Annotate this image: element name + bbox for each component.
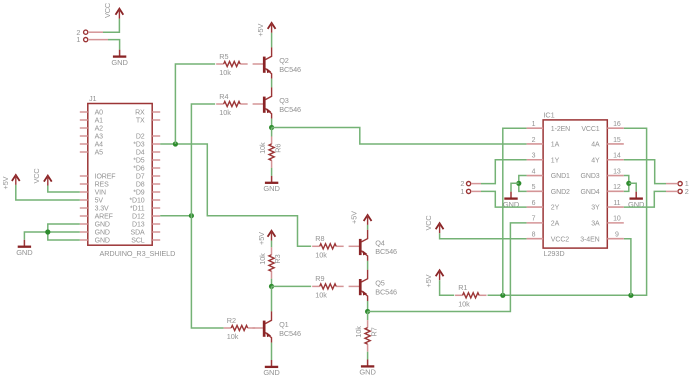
svg-text:D2: D2 [136, 134, 145, 141]
svg-text:5V: 5V [95, 198, 104, 205]
wire [175, 64, 215, 144]
svg-text:R8: R8 [315, 234, 324, 243]
transistor Q2 [253, 47, 301, 78]
svg-text:10k: 10k [227, 332, 239, 341]
wire [367, 225, 369, 230]
IC IC1 L293D [527, 110, 624, 257]
svg-text:VCC2: VCC2 [551, 236, 569, 243]
transistor Q1 [253, 311, 301, 342]
wire [48, 186, 80, 193]
supply +5V (Q4) [349, 211, 371, 225]
svg-text:IOREF: IOREF [95, 174, 116, 181]
svg-text:SCL: SCL [131, 238, 145, 245]
wire [271, 119, 273, 128]
svg-text:3A: 3A [591, 220, 600, 227]
svg-text:+5V: +5V [424, 274, 433, 287]
svg-text:GND: GND [111, 58, 128, 67]
wire [48, 224, 80, 240]
wire D3 [160, 144, 311, 246]
svg-text:BC546: BC546 [279, 65, 301, 74]
svg-text:Q2: Q2 [279, 56, 289, 65]
connector X1 pin 2 [76, 28, 103, 37]
svg-text:R5: R5 [219, 52, 228, 61]
svg-text:GND4: GND4 [581, 189, 600, 196]
ground (below Q1) [263, 360, 280, 377]
wire [271, 286, 273, 311]
resistor R4 [216, 92, 248, 117]
svg-text:TX: TX [136, 118, 145, 125]
svg-text:A2: A2 [95, 126, 104, 133]
svg-text:VCC1: VCC1 [581, 126, 599, 133]
wire [481, 160, 527, 184]
wire 2A [368, 223, 527, 312]
svg-text:1A: 1A [551, 142, 560, 149]
svg-text:VIN: VIN [95, 190, 106, 197]
svg-text:1: 1 [76, 35, 80, 44]
svg-text:3Y: 3Y [591, 205, 600, 212]
svg-text:3.3V: 3.3V [95, 206, 109, 213]
svg-text:R3: R3 [273, 254, 282, 263]
svg-text:2Y: 2Y [551, 205, 560, 212]
svg-text:BC546: BC546 [375, 287, 397, 296]
connector X3 pin 1 [666, 179, 689, 188]
wire [103, 19, 119, 33]
wire [271, 128, 273, 137]
wire [271, 343, 273, 360]
svg-text:D7: D7 [136, 174, 145, 181]
svg-text:4: 4 [532, 168, 536, 175]
svg-text:D12: D12 [132, 214, 145, 221]
svg-text:1-2EN: 1-2EN [551, 126, 570, 133]
svg-text:GND1: GND1 [551, 173, 570, 180]
svg-text:A0: A0 [95, 110, 104, 117]
svg-text:3: 3 [532, 153, 536, 160]
ground (below R7) [359, 360, 376, 377]
svg-text:7: 7 [532, 216, 536, 223]
transistor Q5 [349, 270, 397, 301]
wire [271, 33, 273, 48]
junction [516, 181, 521, 186]
svg-text:VCC: VCC [32, 168, 41, 183]
svg-text:R6: R6 [273, 144, 282, 153]
svg-text:A5: A5 [95, 150, 104, 157]
svg-text:R7: R7 [369, 327, 378, 336]
svg-text:GND: GND [16, 248, 33, 257]
svg-text:11: 11 [613, 200, 620, 207]
wire [624, 160, 666, 184]
supply +5V (R1) [424, 270, 444, 287]
svg-text:VCC: VCC [424, 215, 433, 230]
junction [365, 309, 370, 314]
svg-text:GND: GND [95, 238, 110, 245]
resistor R9 [312, 274, 344, 299]
svg-text:Q3: Q3 [279, 96, 289, 105]
resistor R6 [258, 136, 282, 168]
svg-text:R9: R9 [315, 274, 324, 283]
svg-text:R1: R1 [458, 283, 467, 292]
svg-text:D13: D13 [132, 222, 145, 229]
supply VCC (top-left) [103, 3, 123, 19]
wire [440, 233, 527, 239]
resistor R1 [455, 283, 487, 308]
resistor R7 [354, 320, 378, 352]
svg-text:4Y: 4Y [591, 157, 600, 164]
ground (left of J1) [16, 240, 33, 257]
resistor R3 [258, 247, 282, 279]
wire [191, 104, 223, 328]
wire [481, 191, 527, 207]
wire [503, 128, 527, 295]
svg-text:*D9: *D9 [133, 190, 145, 197]
ground (below R6) [263, 176, 280, 193]
svg-text:10k: 10k [258, 142, 267, 154]
svg-text:3-4EN: 3-4EN [580, 236, 599, 243]
wire 1A [272, 128, 527, 145]
connector X1 pin 1 [76, 35, 108, 44]
svg-text:L293D: L293D [544, 249, 565, 258]
svg-text:BC546: BC546 [279, 105, 301, 114]
svg-text:9: 9 [615, 231, 619, 238]
svg-text:*D5: *D5 [133, 158, 145, 165]
svg-text:1: 1 [460, 187, 464, 196]
svg-text:IC1: IC1 [544, 110, 555, 119]
wire [511, 183, 519, 191]
wire [440, 280, 455, 295]
svg-text:Q5: Q5 [375, 279, 385, 288]
wire [367, 301, 369, 312]
junction [189, 213, 194, 218]
connector X2 pin 1 [460, 187, 481, 196]
svg-text:*D6: *D6 [133, 166, 145, 173]
svg-text:A3: A3 [95, 134, 104, 141]
svg-text:R2: R2 [227, 316, 236, 325]
svg-text:2A: 2A [551, 220, 560, 227]
svg-text:10k: 10k [315, 291, 327, 300]
supply +5V (left) [1, 175, 20, 189]
junction [626, 181, 631, 186]
svg-text:4A: 4A [591, 142, 600, 149]
svg-text:12: 12 [613, 184, 621, 191]
wire [16, 185, 80, 200]
resistor R2 [224, 316, 256, 341]
svg-text:+5V: +5V [349, 211, 358, 224]
wire [108, 40, 120, 50]
svg-text:VCC: VCC [103, 3, 112, 18]
svg-text:10k: 10k [458, 300, 470, 309]
svg-text:D8: D8 [136, 182, 145, 189]
connector X2 pin 2 [460, 179, 481, 188]
junction [500, 293, 505, 298]
svg-text:10k: 10k [258, 253, 267, 265]
svg-text:10k: 10k [354, 326, 363, 338]
svg-text:2: 2 [532, 137, 536, 144]
ground (IC right) [628, 192, 645, 209]
supply +5V (R3) [257, 231, 276, 245]
svg-text:RES: RES [95, 182, 110, 189]
svg-text:GND3: GND3 [581, 173, 600, 180]
svg-text:+5V: +5V [257, 232, 266, 245]
svg-text:1: 1 [532, 121, 536, 128]
svg-text:16: 16 [613, 121, 621, 128]
supply VCC (right) [424, 215, 444, 233]
svg-text:A4: A4 [95, 142, 104, 149]
wire [519, 176, 527, 192]
svg-text:R4: R4 [219, 92, 228, 101]
wire [271, 241, 273, 248]
wire [488, 128, 647, 295]
svg-text:D4: D4 [136, 150, 145, 157]
junction [173, 141, 178, 146]
ground (top-left) [111, 50, 128, 67]
wire [367, 312, 369, 321]
svg-text:8: 8 [532, 231, 536, 238]
svg-text:GND: GND [95, 222, 110, 229]
wire [271, 279, 273, 287]
svg-text:J1: J1 [89, 94, 97, 103]
wire [624, 176, 629, 192]
transistor Q3 [253, 87, 301, 118]
svg-text:GND: GND [95, 230, 110, 237]
svg-text:Q1: Q1 [279, 320, 289, 329]
svg-text:5: 5 [532, 184, 536, 191]
wire [629, 183, 636, 191]
svg-text:1Y: 1Y [551, 157, 560, 164]
wire [367, 261, 369, 270]
junction [269, 125, 274, 130]
transistor Q4 [349, 230, 397, 261]
svg-text:GND2: GND2 [551, 189, 570, 196]
svg-text:*D10: *D10 [129, 198, 144, 205]
ground (IC left) [503, 192, 520, 209]
svg-text:A1: A1 [95, 118, 104, 125]
svg-text:+5V: +5V [1, 176, 10, 189]
resistor R5 [216, 52, 248, 77]
svg-text:GND: GND [359, 368, 376, 377]
svg-text:Q4: Q4 [375, 238, 385, 247]
svg-text:14: 14 [613, 153, 621, 160]
svg-text:10k: 10k [315, 251, 327, 260]
svg-text:10k: 10k [219, 108, 231, 117]
svg-text:ARDUINO_R3_SHIELD: ARDUINO_R3_SHIELD [100, 249, 176, 258]
svg-text:10k: 10k [219, 68, 231, 77]
svg-text:6: 6 [532, 200, 536, 207]
svg-text:GND: GND [263, 368, 280, 377]
svg-text:+5V: +5V [256, 24, 265, 37]
svg-text:GND: GND [263, 184, 280, 193]
wire [24, 232, 79, 240]
supply +5V (Q2) [256, 23, 276, 37]
svg-text:*D3: *D3 [133, 142, 145, 149]
junction [45, 229, 50, 234]
svg-text:2: 2 [685, 187, 689, 196]
svg-text:RX: RX [135, 110, 145, 117]
supply VCC (left) [32, 168, 52, 185]
svg-text:15: 15 [613, 137, 621, 144]
resistor R8 [312, 234, 344, 259]
wire D12 [160, 215, 191, 217]
svg-text:*D11: *D11 [130, 206, 145, 213]
svg-text:BC546: BC546 [375, 247, 397, 256]
svg-text:BC546: BC546 [279, 329, 301, 338]
wire [272, 285, 312, 287]
svg-text:SDA: SDA [131, 230, 146, 237]
wire [271, 168, 273, 176]
wire [624, 191, 666, 207]
wire [367, 352, 369, 360]
connector X3 pin 2 [666, 187, 689, 196]
wire [624, 239, 631, 296]
svg-text:10: 10 [613, 216, 621, 223]
junction [628, 293, 633, 298]
IC J1 ARDUINO_R3_SHIELD [80, 94, 175, 258]
svg-text:AREF: AREF [95, 214, 113, 221]
wire [271, 79, 273, 88]
junction [269, 284, 274, 289]
svg-text:13: 13 [613, 168, 621, 175]
